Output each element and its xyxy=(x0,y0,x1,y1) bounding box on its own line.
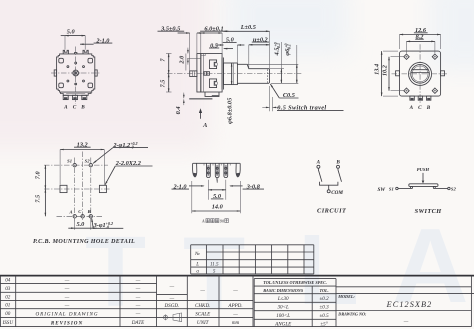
svg-text:—: — xyxy=(169,296,175,302)
svg-text:±0.3: ±0.3 xyxy=(320,305,330,311)
view1 corner holes xyxy=(59,58,64,63)
svg-text:B: B xyxy=(87,209,91,214)
switch push arrow xyxy=(422,173,424,181)
a-view dim 5.0 xyxy=(207,180,209,200)
view1 centerlines xyxy=(75,47,77,105)
svg-text:—: — xyxy=(232,288,238,294)
svg-text:5.0: 5.0 xyxy=(76,221,85,228)
svg-text:—: — xyxy=(199,288,205,294)
svg-text:SCALE: SCALE xyxy=(195,311,211,317)
view2 direction arrow A xyxy=(199,108,202,113)
svg-text:a: a xyxy=(196,269,199,275)
svg-text:DRAWING NO:: DRAWING NO: xyxy=(337,312,367,317)
circuit wiper arm A xyxy=(318,168,322,181)
view3 shaft circle xyxy=(412,66,428,82)
svg-text:UNIT: UNIT xyxy=(197,320,210,326)
switch wires xyxy=(398,188,410,190)
pcb centerlines horizontal xyxy=(44,164,108,166)
svg-text:5: 5 xyxy=(213,269,216,275)
svg-text:DATE: DATE xyxy=(131,320,145,326)
view2 centerline xyxy=(167,73,301,75)
svg-text:L: L xyxy=(195,262,199,268)
svg-text:B: B xyxy=(426,105,431,111)
a-view case seams xyxy=(203,163,205,165)
title block bottom line xyxy=(0,326,471,328)
svg-text:S1: S1 xyxy=(389,186,394,191)
svg-text:BASIC DIMENSIONS: BASIC DIMENSIONS xyxy=(262,288,304,293)
svg-text:SWITCH: SWITCH xyxy=(415,208,443,215)
svg-text:7.5: 7.5 xyxy=(159,80,166,88)
svg-text:L≤30: L≤30 xyxy=(277,296,289,302)
circuit wiper arm B xyxy=(338,168,342,181)
view1 top center nub xyxy=(75,53,77,54)
view1 six contact holes xyxy=(75,62,77,64)
right border xyxy=(470,276,472,327)
svg-text:11.5: 11.5 xyxy=(210,262,219,268)
svg-text:13.4: 13.4 xyxy=(374,64,381,75)
view1 side nubs xyxy=(54,70,56,76)
svg-text:APPD.: APPD. xyxy=(227,303,242,309)
svg-text:φ6.8±0.05: φ6.8±0.05 xyxy=(226,98,233,124)
svg-text:02: 02 xyxy=(5,294,11,300)
svg-text:C: C xyxy=(78,209,82,214)
svg-text:B: B xyxy=(80,105,85,111)
view2 shaft with flat xyxy=(237,64,269,83)
svg-text:01: 01 xyxy=(5,303,10,309)
svg-text:S2: S2 xyxy=(451,186,457,191)
svg-text:A: A xyxy=(63,105,68,111)
parameter table xyxy=(191,244,314,246)
title block heavy top line xyxy=(0,275,474,277)
svg-text:C: C xyxy=(73,105,77,111)
circuit COM terminal xyxy=(327,190,330,193)
svg-text:COM: COM xyxy=(331,190,343,196)
svg-text:2.0: 2.0 xyxy=(179,55,186,65)
svg-text:SW: SW xyxy=(378,187,386,193)
svg-text:14.0: 14.0 xyxy=(212,204,224,211)
svg-text:—: — xyxy=(64,286,70,292)
title block left grid xyxy=(0,282,157,284)
svg-text:A: A xyxy=(202,122,207,129)
view3 side nubs xyxy=(396,71,400,76)
background tint washes xyxy=(0,0,210,150)
switch actuator bar xyxy=(409,184,438,187)
svg-text:mm: mm xyxy=(232,320,240,326)
view3 bushing circles xyxy=(409,62,432,85)
svg-text:—: — xyxy=(64,303,70,309)
svg-text:A: A xyxy=(68,209,72,214)
svg-text:EC12SXB2: EC12SXB2 xyxy=(386,300,433,309)
view2 shaft slot hidden line xyxy=(267,69,269,83)
svg-text:PUSH: PUSH xyxy=(417,167,430,172)
a-view pins xyxy=(207,163,211,177)
tolerance table xyxy=(254,278,336,280)
switch terminal S2 xyxy=(448,187,450,189)
svg-text:ANGLE: ANGLE xyxy=(274,322,292,328)
svg-text:C: C xyxy=(418,105,422,111)
svg-text:±5°: ±5° xyxy=(320,321,327,328)
svg-text:0.4: 0.4 xyxy=(175,106,182,114)
svg-text:—: — xyxy=(135,311,141,317)
svg-text:30<L: 30<L xyxy=(278,305,290,311)
view1 bottom lip xyxy=(61,92,92,95)
a-view middle pin tail xyxy=(217,178,218,183)
a-view right hook xyxy=(236,163,240,177)
view2 bottom pin line xyxy=(189,98,212,99)
svg-text:TOL.: TOL. xyxy=(320,288,329,293)
svg-text:DSGD.: DSGD. xyxy=(163,303,179,309)
svg-text:P.C.B. MOUNTING HOLE DETAIL: P.C.B. MOUNTING HOLE DETAIL xyxy=(33,239,135,245)
view1 body outline xyxy=(57,54,95,92)
svg-text:00: 00 xyxy=(5,311,11,317)
pcb centerlines vertical xyxy=(74,158,76,222)
title block left border xyxy=(0,276,1,327)
svg-text:03: 03 xyxy=(5,286,11,292)
circuit common bus xyxy=(320,182,338,185)
svg-text:B: B xyxy=(335,160,340,166)
svg-text:±0.5: ±0.5 xyxy=(320,313,330,319)
svg-text:±0.2: ±0.2 xyxy=(320,296,330,302)
svg-text:—: — xyxy=(135,303,141,309)
svg-text:ISSU: ISSU xyxy=(2,320,14,326)
model section lines xyxy=(336,286,471,288)
svg-text:—: — xyxy=(403,318,409,324)
view3 shaft slot xyxy=(412,69,429,71)
svg-text:№: № xyxy=(194,251,200,257)
svg-text:L±0.5: L±0.5 xyxy=(240,24,256,31)
svg-text:—: — xyxy=(64,278,70,284)
view2 mounting plate xyxy=(197,54,201,93)
pcb terminal holes A C B xyxy=(73,215,76,218)
view2 body top notch xyxy=(201,54,205,56)
view2 bottom lip xyxy=(205,92,219,96)
switch terminal S1 xyxy=(396,187,398,189)
svg-text:MODEL:: MODEL: xyxy=(337,294,355,299)
svg-text:CHKD.: CHKD. xyxy=(195,303,210,309)
view3 centerlines xyxy=(419,44,421,103)
view2 threaded bushing xyxy=(224,63,238,85)
view1 bottom pins xyxy=(63,95,68,99)
view2 center bearing blocks xyxy=(204,72,207,76)
svg-text:A: A xyxy=(201,219,205,224)
view2 lower internal cutout xyxy=(210,79,217,88)
view2 washer plate xyxy=(221,58,223,90)
view1 center shaft hole with cross xyxy=(73,70,79,76)
svg-text:A: A xyxy=(409,105,414,111)
view2 switch travel 0.5 xyxy=(269,86,271,111)
svg-text:ORIGINAL DRAWING: ORIGINAL DRAWING xyxy=(35,311,98,317)
svg-text:CIRCUIT: CIRCUIT xyxy=(317,208,347,215)
view3 body outline xyxy=(400,51,441,96)
projection symbol xyxy=(163,315,167,319)
switch contact legs xyxy=(411,187,413,189)
a-view body top edge xyxy=(193,162,240,164)
svg-text:4.5 +0-0.1: 4.5 +0-0.1 xyxy=(273,42,281,56)
view2 body block xyxy=(201,54,222,93)
svg-text:7.0: 7.0 xyxy=(35,171,42,180)
svg-text:5.0: 5.0 xyxy=(67,28,76,35)
svg-text:—: — xyxy=(232,311,238,317)
svg-text:10.2: 10.2 xyxy=(381,65,388,76)
a-view dim 14.0 xyxy=(191,181,193,213)
svg-text:REVISION: REVISION xyxy=(51,320,83,326)
view3 corner rivets xyxy=(404,54,409,59)
svg-text:—: — xyxy=(135,294,141,300)
svg-text:04: 04 xyxy=(5,278,11,284)
circuit common stem xyxy=(328,185,330,190)
view1 top mounting tabs xyxy=(63,50,68,54)
svg-text:7.5: 7.5 xyxy=(35,195,42,203)
svg-text:S1: S1 xyxy=(67,159,72,164)
svg-text:TOL.UNLESS OTHERWISE SPEC.: TOL.UNLESS OTHERWISE SPEC. xyxy=(263,280,327,285)
svg-text:—: — xyxy=(135,278,141,284)
svg-text:—: — xyxy=(64,294,70,300)
a-view left hook xyxy=(193,163,197,177)
svg-text:S2: S2 xyxy=(85,159,91,164)
view3 bottom pins xyxy=(410,96,414,100)
view2 rear post xyxy=(190,71,197,77)
svg-text:—: — xyxy=(135,286,141,292)
svg-text:φ6 +0-0.1: φ6 +0-0.1 xyxy=(284,43,292,55)
pcb switch holes S1 S2 xyxy=(73,163,76,166)
svg-text:100<L: 100<L xyxy=(276,313,290,319)
svg-text:A: A xyxy=(316,160,321,166)
pcb rectangular holes xyxy=(60,185,67,192)
view2 upper internal cutout xyxy=(210,60,217,69)
svg-text:—: — xyxy=(169,283,175,289)
